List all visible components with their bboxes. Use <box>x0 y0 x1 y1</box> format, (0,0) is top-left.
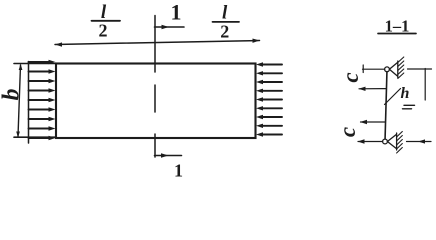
svg-text:c: c <box>338 72 363 82</box>
svg-text:h: h <box>401 85 410 102</box>
svg-text:1: 1 <box>171 0 182 25</box>
svg-text:2: 2 <box>220 22 229 42</box>
svg-text:b: b <box>0 89 25 101</box>
svg-text:c: c <box>335 127 360 137</box>
svg-text:l: l <box>222 3 228 24</box>
svg-text:2: 2 <box>99 21 108 41</box>
svg-text:1–1: 1–1 <box>385 17 410 36</box>
svg-text:1: 1 <box>174 161 183 181</box>
